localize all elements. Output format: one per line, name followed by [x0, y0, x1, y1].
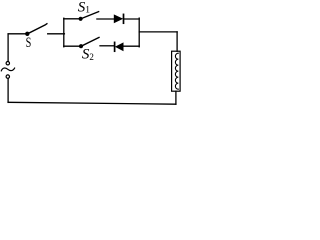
svg-text:S: S [26, 34, 32, 50]
